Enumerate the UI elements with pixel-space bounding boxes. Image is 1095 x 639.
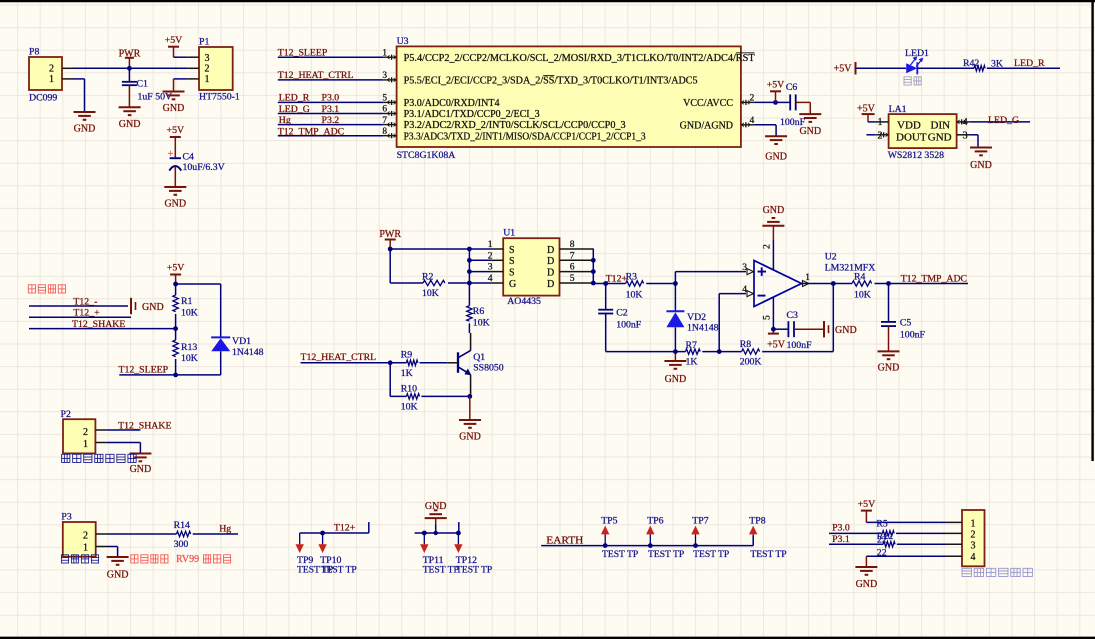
svg-text:GND/AGND: GND/AGND bbox=[680, 121, 733, 132]
svg-text:+5V: +5V bbox=[767, 80, 785, 91]
svg-text:S: S bbox=[509, 256, 515, 267]
svg-text:U2: U2 bbox=[825, 252, 837, 263]
svg-text:R6: R6 bbox=[473, 306, 485, 317]
svg-text:P3.3/ADC3/TXD_2/INT1/MISO/SDA/: P3.3/ADC3/TXD_2/INT1/MISO/SDA/CCP1/CCP1_… bbox=[404, 131, 646, 142]
svg-text:P5.4/CCP2_2/CCP2/MCLKO/SCL_2/M: P5.4/CCP2_2/CCP2/MCLKO/SCL_2/MOSI/RXD_3/… bbox=[404, 53, 755, 64]
svg-text:R3: R3 bbox=[626, 271, 638, 282]
svg-text:LED_G: LED_G bbox=[988, 115, 1019, 126]
svg-text:TP8: TP8 bbox=[749, 516, 765, 527]
svg-text:+5V: +5V bbox=[165, 35, 183, 46]
svg-text:6: 6 bbox=[570, 262, 575, 273]
svg-text:R4: R4 bbox=[854, 271, 866, 282]
svg-text:1K: 1K bbox=[401, 368, 413, 379]
svg-text:GND: GND bbox=[130, 464, 152, 475]
svg-text:U3: U3 bbox=[397, 36, 409, 47]
svg-text:22: 22 bbox=[877, 548, 887, 559]
svg-text:1N4148: 1N4148 bbox=[232, 347, 264, 358]
svg-text:GND: GND bbox=[799, 126, 821, 137]
svg-text:R9: R9 bbox=[401, 350, 413, 361]
svg-text:+5V: +5V bbox=[857, 103, 876, 114]
svg-text:P2: P2 bbox=[61, 409, 71, 420]
svg-text:3: 3 bbox=[963, 130, 968, 141]
svg-text:GND: GND bbox=[835, 325, 857, 336]
svg-text:LED1: LED1 bbox=[905, 48, 929, 59]
svg-text:4: 4 bbox=[971, 552, 976, 563]
svg-text:10K: 10K bbox=[181, 353, 198, 364]
svg-text:T12_SHAKE: T12_SHAKE bbox=[118, 420, 171, 431]
svg-text:VCC/AVCC: VCC/AVCC bbox=[683, 98, 733, 109]
svg-text:T12_HEAT_CTRL: T12_HEAT_CTRL bbox=[301, 352, 377, 363]
svg-text:VDD: VDD bbox=[897, 119, 921, 131]
svg-text:2: 2 bbox=[762, 244, 773, 249]
svg-text:100nF: 100nF bbox=[616, 319, 642, 330]
svg-text:GND: GND bbox=[970, 160, 992, 171]
svg-text:4: 4 bbox=[750, 115, 755, 126]
svg-text:2: 2 bbox=[83, 530, 88, 541]
svg-text:P5.5/ECI_2/ECI/CCP2_3/SDA_2/SS: P5.5/ECI_2/ECI/CCP2_3/SDA_2/SS/TXD_3/T0C… bbox=[404, 76, 698, 87]
svg-text:WS2812 3528: WS2812 3528 bbox=[888, 150, 944, 161]
svg-text:D: D bbox=[547, 267, 554, 278]
svg-text:GND: GND bbox=[142, 302, 164, 313]
svg-text:4: 4 bbox=[488, 273, 493, 284]
svg-text:1: 1 bbox=[971, 518, 976, 529]
svg-text:GND: GND bbox=[665, 374, 687, 385]
svg-text:D: D bbox=[547, 245, 554, 256]
svg-text:3: 3 bbox=[205, 53, 210, 64]
svg-text:1N4148: 1N4148 bbox=[687, 322, 719, 333]
svg-text:C5: C5 bbox=[900, 318, 912, 329]
svg-text:TEST TP: TEST TP bbox=[456, 565, 492, 576]
svg-text:GND: GND bbox=[928, 132, 952, 144]
svg-text:1: 1 bbox=[805, 272, 810, 283]
svg-text:1K: 1K bbox=[686, 357, 698, 368]
svg-text:1: 1 bbox=[205, 74, 210, 85]
svg-text:TP5: TP5 bbox=[601, 516, 617, 527]
svg-text:D: D bbox=[547, 279, 554, 290]
svg-text:GND: GND bbox=[878, 363, 900, 374]
svg-text:C2: C2 bbox=[616, 308, 628, 319]
svg-text:2: 2 bbox=[205, 64, 210, 75]
svg-text:RV99: RV99 bbox=[176, 554, 199, 565]
svg-text:R14: R14 bbox=[174, 520, 190, 531]
svg-text:R42: R42 bbox=[963, 58, 979, 69]
svg-text:T12_TMP_ADC: T12_TMP_ADC bbox=[901, 274, 967, 285]
svg-text:TEST TP: TEST TP bbox=[321, 565, 357, 576]
svg-text:7: 7 bbox=[570, 250, 575, 261]
svg-text:TP6: TP6 bbox=[647, 516, 663, 527]
svg-text:R13: R13 bbox=[181, 342, 197, 353]
svg-text:2: 2 bbox=[878, 130, 883, 141]
svg-text:P3.0/ADC0/RXD/INT4: P3.0/ADC0/RXD/INT4 bbox=[404, 98, 500, 109]
svg-text:GND: GND bbox=[107, 570, 129, 581]
svg-text:+5V: +5V bbox=[858, 499, 876, 510]
svg-text:GND: GND bbox=[119, 119, 141, 130]
svg-text:100nF: 100nF bbox=[900, 329, 926, 340]
svg-text:+5V: +5V bbox=[834, 63, 853, 74]
svg-text:R10: R10 bbox=[401, 384, 417, 395]
svg-text:TEST TP: TEST TP bbox=[423, 565, 459, 576]
svg-text:1: 1 bbox=[49, 74, 54, 85]
svg-text:22: 22 bbox=[877, 535, 887, 546]
svg-text:10uF/6.3V: 10uF/6.3V bbox=[183, 162, 225, 173]
svg-text:R2: R2 bbox=[422, 272, 434, 283]
svg-text:+5V: +5V bbox=[167, 263, 185, 274]
svg-text:GND: GND bbox=[164, 199, 186, 210]
svg-text:P3.1/ADC1/TXD/CCP0_2/ECI_3: P3.1/ADC1/TXD/CCP0_2/ECI_3 bbox=[404, 109, 540, 120]
svg-text:+5V: +5V bbox=[167, 125, 185, 136]
svg-text:DOUT: DOUT bbox=[896, 132, 927, 144]
svg-text:10K: 10K bbox=[422, 288, 439, 299]
svg-text:10K: 10K bbox=[181, 307, 198, 318]
svg-text:1uF 50V: 1uF 50V bbox=[138, 92, 173, 103]
svg-text:P8: P8 bbox=[29, 47, 39, 58]
svg-text:1: 1 bbox=[83, 439, 88, 450]
svg-text:TEST TP: TEST TP bbox=[750, 549, 786, 560]
svg-text:LM321MFX: LM321MFX bbox=[825, 262, 876, 273]
svg-text:D: D bbox=[547, 256, 554, 267]
svg-text:TP7: TP7 bbox=[692, 516, 708, 527]
svg-text:S: S bbox=[509, 245, 515, 256]
svg-text:R8: R8 bbox=[740, 339, 752, 350]
svg-text:AO4435: AO4435 bbox=[507, 296, 541, 307]
svg-text:2: 2 bbox=[750, 92, 755, 103]
svg-text:P3.2/ADC2/RXD_2/INT0/SCLK/SCL/: P3.2/ADC2/RXD_2/INT0/SCLK/SCL/CCP0/CCP0_… bbox=[404, 120, 626, 131]
svg-text:1: 1 bbox=[488, 239, 493, 250]
svg-text:TEST TP: TEST TP bbox=[602, 549, 638, 560]
svg-text:R5: R5 bbox=[876, 519, 888, 530]
svg-text:R7: R7 bbox=[686, 340, 698, 351]
svg-text:GND: GND bbox=[763, 205, 785, 216]
svg-text:C3: C3 bbox=[787, 310, 799, 321]
svg-text:+5V: +5V bbox=[767, 340, 786, 351]
svg-text:10K: 10K bbox=[473, 318, 490, 329]
svg-text:GND: GND bbox=[425, 501, 447, 512]
svg-text:GND: GND bbox=[765, 152, 787, 163]
svg-text:1: 1 bbox=[83, 543, 88, 554]
svg-text:P1: P1 bbox=[199, 37, 209, 48]
svg-text:R1: R1 bbox=[181, 296, 193, 307]
svg-text:C6: C6 bbox=[786, 82, 798, 93]
svg-text:U1: U1 bbox=[503, 228, 515, 239]
svg-text:10K: 10K bbox=[626, 290, 643, 301]
svg-text:5: 5 bbox=[762, 315, 773, 320]
svg-text:P3.1: P3.1 bbox=[832, 534, 850, 545]
svg-text:TEST TP: TEST TP bbox=[693, 549, 729, 560]
svg-text:DIN: DIN bbox=[931, 119, 951, 131]
svg-text:VD1: VD1 bbox=[232, 336, 251, 347]
svg-text:P3: P3 bbox=[61, 512, 71, 523]
svg-text:GND: GND bbox=[74, 124, 96, 135]
svg-text:LED_R: LED_R bbox=[1014, 58, 1045, 69]
svg-text:8: 8 bbox=[570, 239, 575, 250]
svg-text:100nF: 100nF bbox=[787, 340, 813, 351]
svg-text:GND: GND bbox=[856, 579, 878, 590]
svg-text:G: G bbox=[509, 279, 516, 290]
svg-text:C4: C4 bbox=[183, 152, 195, 163]
svg-text:HT7550-1: HT7550-1 bbox=[199, 92, 240, 103]
svg-text:300: 300 bbox=[174, 539, 189, 550]
svg-text:3: 3 bbox=[971, 540, 976, 551]
svg-text:200K: 200K bbox=[740, 357, 762, 368]
svg-text:LA1: LA1 bbox=[889, 104, 907, 115]
svg-text:P3.0: P3.0 bbox=[832, 523, 850, 534]
svg-text:1: 1 bbox=[878, 117, 883, 128]
svg-text:2: 2 bbox=[83, 427, 88, 438]
svg-text:EARTH: EARTH bbox=[546, 535, 583, 546]
svg-text:SS8050: SS8050 bbox=[473, 362, 504, 373]
svg-text:GND: GND bbox=[459, 432, 481, 443]
svg-text:T12+: T12+ bbox=[334, 523, 356, 534]
svg-text:S: S bbox=[509, 267, 515, 278]
svg-text:VD2: VD2 bbox=[687, 312, 706, 323]
svg-text:PWR: PWR bbox=[379, 229, 401, 240]
svg-text:10K: 10K bbox=[854, 289, 871, 300]
svg-text:C1: C1 bbox=[137, 79, 149, 90]
svg-text:DC099: DC099 bbox=[29, 93, 57, 104]
svg-text:T12+: T12+ bbox=[606, 274, 628, 285]
svg-text:TEST TP: TEST TP bbox=[648, 549, 684, 560]
svg-text:5: 5 bbox=[570, 273, 575, 284]
svg-text:4: 4 bbox=[963, 117, 968, 128]
svg-text:T12_SLEEP: T12_SLEEP bbox=[119, 364, 169, 375]
svg-text:2: 2 bbox=[971, 529, 976, 540]
svg-text:Hg: Hg bbox=[219, 524, 231, 535]
svg-text:STC8G1K08A: STC8G1K08A bbox=[397, 150, 456, 161]
svg-text:GND: GND bbox=[163, 103, 185, 114]
svg-text:10K: 10K bbox=[401, 402, 418, 413]
